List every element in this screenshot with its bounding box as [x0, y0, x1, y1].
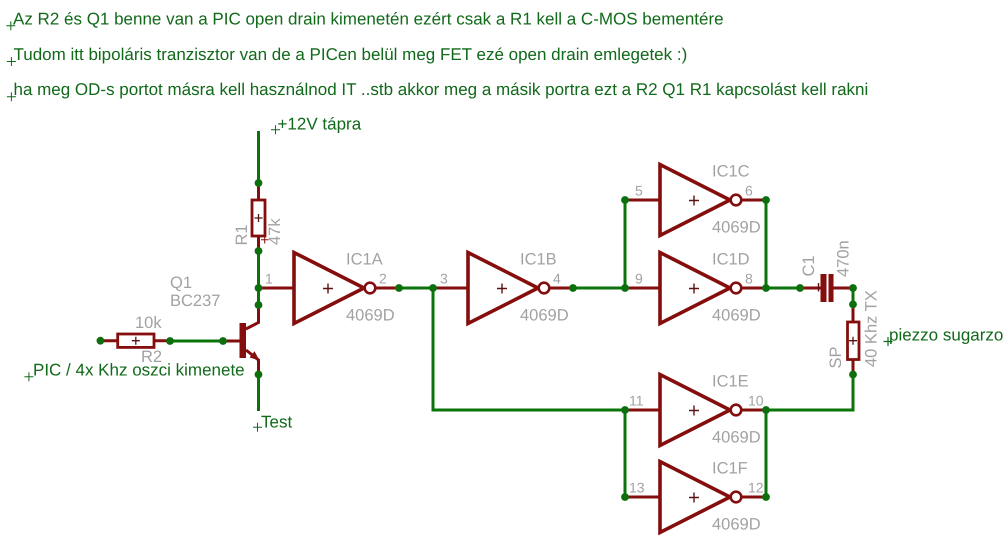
label piezzo sugarzo	[884, 326, 1004, 347]
inverter IC1D	[625, 253, 767, 324]
piezo SP	[848, 304, 860, 374]
svg-text:4069D: 4069D	[520, 307, 569, 325]
wire IC1C out down	[765, 200, 768, 288]
svg-text:11: 11	[629, 393, 644, 409]
svg-text:4069D: 4069D	[346, 307, 395, 325]
svg-text:ha meg OD-s portot másra kell: ha meg OD-s portot másra kell használnod…	[14, 80, 869, 99]
svg-text:1: 1	[265, 271, 273, 287]
svg-text:IC1E: IC1E	[712, 373, 749, 391]
svg-text:3: 3	[440, 271, 448, 287]
svg-text:Q1: Q1	[170, 274, 192, 292]
note text line 3	[7, 80, 868, 101]
junction at 625,497	[621, 493, 629, 501]
junction at 625,200	[621, 196, 629, 204]
label +12V tapra	[271, 115, 362, 135]
label Test	[253, 413, 292, 432]
junction at 170,341	[166, 337, 174, 345]
wire IC1E in down to IC1F	[624, 410, 627, 497]
svg-text:12: 12	[748, 480, 764, 496]
svg-text:piezzo sugarzo: piezzo sugarzo	[889, 326, 1003, 345]
inverter IC1E	[625, 375, 767, 446]
junction dots layer	[97, 179, 857, 501]
junction at 625,288	[621, 284, 629, 292]
inverter IC1F	[625, 462, 767, 533]
junction at 258.5,305	[255, 301, 263, 309]
inverter IC1A	[259, 253, 402, 324]
svg-text:IC1C: IC1C	[712, 163, 750, 181]
svg-text:IC1D: IC1D	[712, 251, 750, 269]
junction at 573,288	[569, 284, 577, 292]
junction at 258.5,288	[255, 284, 263, 292]
svg-text:R1: R1	[233, 224, 251, 245]
wire R1 to node1	[257, 251, 260, 307]
junction at 258.5,374.5	[255, 371, 263, 379]
junction at 258.5,183	[255, 179, 263, 187]
wire SP to IC1E out	[766, 375, 853, 411]
svg-text:PIC / 4x Khz oszci kimenete: PIC / 4x Khz oszci kimenete	[33, 361, 245, 380]
transistor Q1	[223, 307, 260, 375]
capacitor C1	[800, 274, 853, 302]
svg-text:Az R2 és Q1 benne van a PIC op: Az R2 és Q1 benne van a PIC open drain k…	[13, 10, 724, 29]
wire emitter to Test	[257, 375, 260, 412]
svg-text:IC1F: IC1F	[712, 460, 748, 478]
svg-text:13: 13	[629, 480, 645, 496]
wire R2 to base	[170, 340, 223, 343]
svg-text:4: 4	[553, 271, 561, 287]
junction at 766,410	[762, 406, 770, 414]
junction at 766,497	[762, 493, 770, 501]
svg-text:SP: SP	[827, 346, 845, 368]
svg-text:4069D: 4069D	[712, 516, 761, 534]
svg-text:4069D: 4069D	[712, 307, 761, 325]
inverter IC1B	[433, 253, 575, 324]
junction at 399,288	[395, 284, 403, 292]
junction at 853,304.4	[849, 301, 857, 309]
junction at 853,288	[849, 284, 857, 292]
svg-text:10k: 10k	[135, 314, 162, 332]
note text line 1	[6, 10, 723, 31]
svg-text:+12V tápra: +12V tápra	[278, 115, 362, 134]
junction at 100.4,340.7	[97, 337, 105, 345]
note text line 2	[7, 45, 687, 66]
svg-text:IC1B: IC1B	[520, 251, 557, 269]
junction at 223,341	[219, 337, 227, 345]
svg-text:Test: Test	[261, 413, 292, 432]
svg-text:40 Khz TX: 40 Khz TX	[863, 290, 881, 367]
wire IC1E out down to IC1F out	[765, 410, 768, 497]
junction at 800,288	[796, 284, 804, 292]
wire C1 to SP	[852, 288, 855, 304]
svg-text:4069D: 4069D	[712, 219, 761, 237]
resistor R2	[103, 334, 170, 347]
junction at 853,374.5	[849, 371, 857, 379]
wire up to IC1C	[624, 200, 627, 288]
svg-text:BC237: BC237	[170, 292, 220, 310]
wire IC1D out to C1	[766, 287, 800, 290]
label PIC / 4x Khz oszci kimenete	[24, 361, 244, 382]
svg-text:470n: 470n	[835, 240, 853, 277]
wire IC1B out to node	[573, 287, 625, 290]
wire down to IC1E row	[433, 288, 625, 410]
wire +12V vertical	[257, 131, 260, 183]
wire IC1A out to IC1B	[399, 287, 433, 290]
inverter IC1C	[625, 165, 767, 236]
junction at 433,288	[429, 284, 437, 292]
junction at 766,200	[762, 196, 770, 204]
svg-text:9: 9	[635, 271, 643, 287]
svg-text:2: 2	[379, 271, 387, 287]
junction at 766,288	[762, 284, 770, 292]
svg-text:47k: 47k	[266, 218, 284, 245]
junction at 258.5,251	[255, 247, 263, 255]
junction at 625,410	[621, 406, 629, 414]
resistor R1	[252, 183, 269, 251]
svg-text:8: 8	[745, 271, 753, 287]
svg-text:10: 10	[748, 393, 764, 409]
svg-text:C1: C1	[800, 255, 818, 276]
svg-text:IC1A: IC1A	[346, 251, 383, 269]
svg-text:5: 5	[635, 183, 643, 199]
svg-text:Tudom itt bipoláris tranziszto: Tudom itt bipoláris tranzisztor van de a…	[14, 45, 688, 64]
svg-text:4069D: 4069D	[712, 429, 761, 447]
svg-text:6: 6	[745, 183, 753, 199]
